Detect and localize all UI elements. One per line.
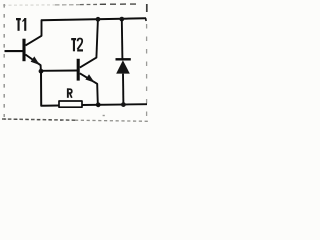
frame left border (dashed) [3, 4, 5, 117]
frame bottom border (dashed) [2, 115, 148, 122]
junction dot top rail T2 collector [96, 17, 101, 22]
wire diode cathode drop [122, 74, 124, 105]
node A junction dot [39, 69, 44, 74]
diode VD1 cathode bar [116, 58, 131, 60]
frame top border (dashed) [3, 4, 140, 5]
label T2 [71, 38, 83, 51]
wire T1 collector riser [26, 20, 42, 45]
junction dot bottom rail T2 emitter [96, 102, 101, 107]
wire top rail [41, 18, 146, 20]
junction dot top rail diode [119, 17, 124, 22]
transistor T1 base bar [22, 39, 25, 62]
wire node A to T2 base [41, 70, 77, 72]
wire top rail right end tick [145, 18, 148, 21]
transistor T1 emitter with arrow [25, 55, 40, 70]
wire node A down to bottom rail [41, 71, 59, 106]
junction dot bottom rail diode [121, 102, 126, 107]
wire T2 collector riser [80, 20, 98, 68]
transistor T2 base bar [77, 59, 80, 81]
wire bottom rail [82, 103, 147, 106]
label T1 [16, 18, 26, 31]
diode VD1 triangle [116, 60, 130, 73]
label R [67, 88, 72, 98]
wire diode anode riser [121, 19, 124, 59]
frame right border (dashed) [146, 4, 148, 117]
resistor R body [59, 101, 82, 107]
wire T1 base lead [5, 50, 23, 52]
transistor T2 emitter with arrow [80, 73, 98, 104]
